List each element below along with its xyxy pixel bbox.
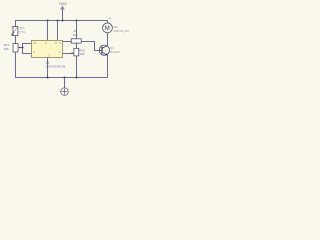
wire: R1 branch from bus down to RV2 bbox=[76, 21, 78, 49]
transistor Q1 bbox=[99, 45, 109, 55]
background bbox=[0, 0, 136, 100]
resistor R1 bbox=[71, 39, 81, 43]
wire: bottom return bus bbox=[15, 77, 107, 79]
junction dot top bus / U1 pin x47 bbox=[47, 20, 49, 22]
thermistor TH1 bbox=[11, 25, 18, 36]
svg-text:10K: 10K bbox=[4, 47, 9, 51]
wire: wiper loop to U1 inputs bbox=[22, 44, 32, 54]
wire: left column, bus to TH1 bbox=[15, 21, 17, 27]
svg-text:+12V: +12V bbox=[58, 2, 67, 6]
power flag +12V bbox=[58, 2, 67, 20]
wire: TH1 to RV1 bbox=[15, 36, 17, 44]
wire: RV2 bottom to bus bbox=[76, 56, 78, 78]
wire: collector to motor bbox=[107, 33, 109, 46]
junction dot top bus / U1 pin x57 bbox=[57, 20, 59, 22]
junction dot bottom bus / terminal bbox=[64, 77, 66, 79]
svg-text:MOTOR_DC: MOTOR_DC bbox=[114, 29, 129, 33]
junction dot top bus / power bbox=[62, 20, 64, 22]
wire: U1 GND pin to bottom bus bbox=[47, 57, 49, 77]
wire: U1 VCC pin stub x47 bbox=[47, 21, 49, 41]
svg-text:M1: M1 bbox=[114, 25, 118, 29]
junction dot top bus / R1 branch bbox=[76, 20, 78, 22]
svg-text:CD4093BCM: CD4093BCM bbox=[46, 64, 66, 68]
motor M1 bbox=[103, 15, 113, 32]
wire: top +12V bus bbox=[15, 20, 107, 22]
IC U1 body bbox=[32, 40, 63, 57]
terminal (circle-plus) bbox=[61, 78, 69, 96]
wire: U1 reset pin stub x57 bbox=[57, 21, 59, 41]
junction dot bottom bus / U1 bbox=[47, 77, 49, 79]
potentiometer RV2 bbox=[72, 48, 79, 56]
wire: U1 pin to RV2 wiper bbox=[62, 53, 72, 55]
svg-text:2N2222: 2N2222 bbox=[110, 50, 120, 54]
potentiometer RV1 bbox=[13, 44, 23, 52]
wire: RV1 bottom to bus bbox=[15, 52, 17, 78]
svg-text:-t: -t bbox=[11, 25, 13, 29]
junction dot wiper loop bbox=[22, 47, 24, 49]
svg-text:10K: 10K bbox=[79, 52, 84, 56]
svg-text:M: M bbox=[105, 26, 110, 32]
wire: emitter to bottom bus bbox=[107, 55, 109, 77]
wire: U1 output to Q1 base bbox=[62, 42, 102, 51]
svg-text:NTC: NTC bbox=[19, 30, 25, 34]
svg-text:10K: 10K bbox=[72, 33, 77, 37]
junction dot bottom bus / RV2 bbox=[76, 77, 78, 79]
